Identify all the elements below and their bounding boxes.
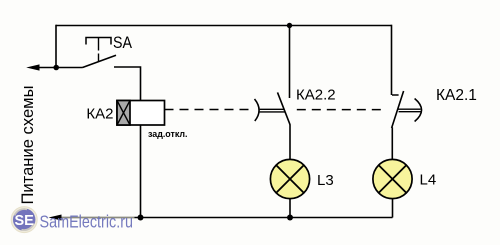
watermark SamElectric.ru <box>11 207 133 233</box>
switch SA latch bracket <box>86 38 111 45</box>
contact KA2.2 lever <box>278 92 291 124</box>
svg-text:зад.откл.: зад.откл. <box>148 129 188 140</box>
contact KA2.2 delay lines <box>260 109 286 112</box>
contact KA2.1 fixed tick <box>392 94 399 96</box>
node top feed junction <box>53 65 59 71</box>
contact KA2.2 delay arc <box>255 99 260 121</box>
wire bottom rail dimmed under watermark <box>61 217 135 219</box>
svg-text:SamElectric.ru: SamElectric.ru <box>40 211 134 231</box>
switch SA latch stem <box>98 38 100 62</box>
wire top rail <box>56 25 392 27</box>
wire KA2.2 top drop <box>289 26 291 99</box>
contact KA2.1 delay arc <box>415 99 422 122</box>
svg-text:L3: L3 <box>317 172 334 189</box>
lamp L4 <box>373 159 412 198</box>
contact KA2.1 lever <box>392 91 404 128</box>
wire mechanical link dashes 1 <box>165 109 254 111</box>
wire KA2.2 bottom <box>289 124 291 160</box>
wire KA2.1 top drop <box>391 25 393 95</box>
wire bottom rail <box>135 217 393 219</box>
lamp L3 <box>270 159 309 198</box>
wire mechanical link dashes 2 <box>297 109 381 111</box>
svg-text:L4: L4 <box>420 172 437 189</box>
wire KA2.1 bottom <box>391 127 393 160</box>
node KA2.2 top junction <box>287 23 292 28</box>
wire L4 bottom <box>392 198 394 217</box>
wire L3 bottom <box>289 198 291 217</box>
svg-text:Питание схемы: Питание схемы <box>19 86 37 205</box>
svg-text:КА2: КА2 <box>86 105 113 122</box>
wire left vertical <box>55 25 57 68</box>
wire SA fixed terminal <box>114 67 141 101</box>
wire feed line <box>36 67 83 69</box>
arrow bottom feed <box>49 215 62 221</box>
svg-text:КА2.1: КА2.1 <box>436 87 477 104</box>
node L3 bottom junction <box>287 215 293 221</box>
svg-text:КА2.2: КА2.2 <box>296 87 336 104</box>
arrow top feed <box>26 64 39 70</box>
node coil bottom junction <box>138 215 144 221</box>
contact KA2.1 delay lines <box>398 109 421 112</box>
svg-text:SE: SE <box>15 213 35 229</box>
svg-text:SA: SA <box>113 33 133 52</box>
switch SA moving contact <box>83 55 117 67</box>
relay coil KA2 <box>117 101 165 126</box>
wire coil bottom <box>140 125 142 218</box>
